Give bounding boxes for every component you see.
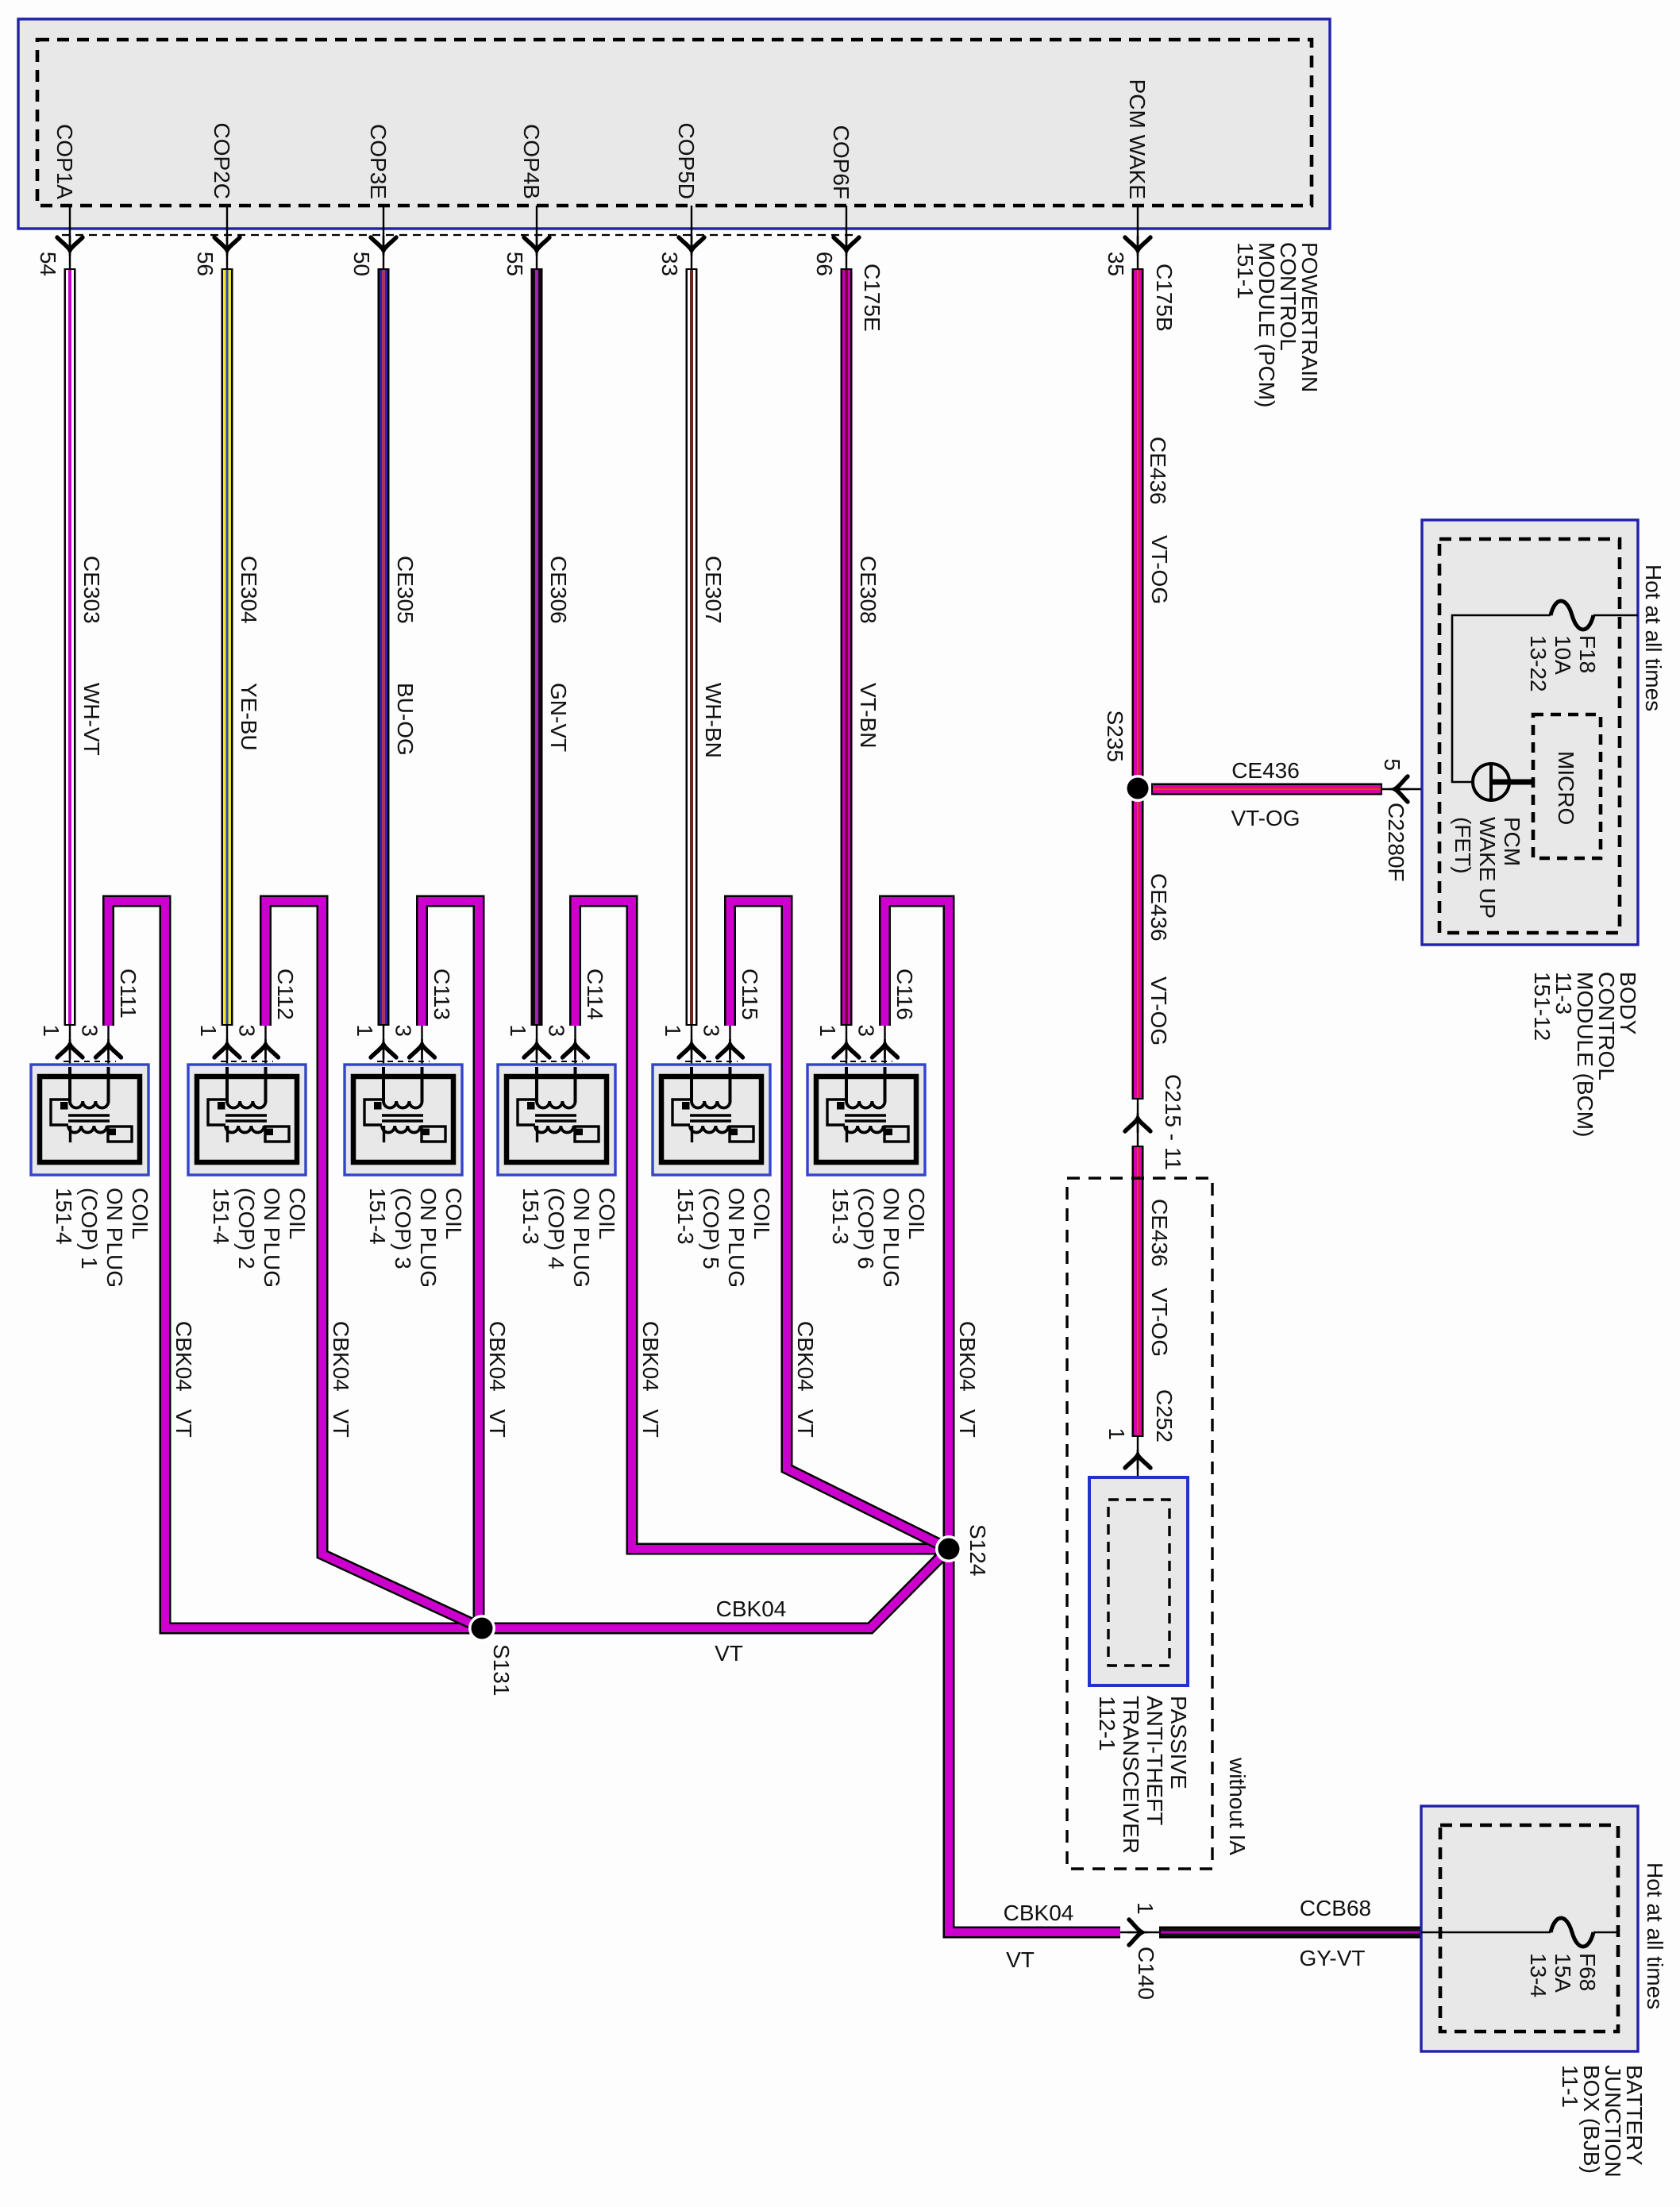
wire F18 to FET [1452,615,1551,782]
svg-text:CBK04: CBK04 [793,1321,818,1392]
transistor PCM WAKE UP (FET) [1473,764,1509,800]
wire CE308 VT-BN (pin 66 to coil 6) [841,268,853,1026]
svg-text:COP4B: COP4B [519,124,544,199]
connector C175E dashed boundary [62,234,856,236]
svg-text:3: 3 [545,1024,569,1037]
pin 56 stub of COP2C [226,206,228,268]
splice S235 [1124,775,1151,802]
svg-text:(COP) 4: (COP) 4 [544,1188,568,1269]
svg-text:1: 1 [353,1024,377,1037]
fuse F68 15A [1551,1918,1593,1947]
svg-text:ON PLUG: ON PLUG [879,1188,904,1288]
connector C252 pin 1 [1137,1437,1139,1500]
svg-text:VT-OG: VT-OG [1147,535,1172,604]
svg-text:1: 1 [1133,1902,1158,1915]
svg-text:VT: VT [793,1409,818,1438]
coil-on-plug 2 box [188,1065,306,1175]
wire CBK04 VT (coil 3 pin 3 hook) [422,901,480,1628]
module BCM box [1422,520,1638,945]
splice S131 [468,1615,495,1642]
svg-text:CBK04: CBK04 [329,1321,353,1392]
svg-text:MICRO: MICRO [1554,751,1578,825]
svg-text:(COP) 6: (COP) 6 [853,1188,878,1269]
svg-text:5: 5 [1380,758,1404,771]
wire CE303 WH-VT (pin 54 to coil 1) [64,268,76,1026]
connector C115 pins 1,3 [691,1026,692,1105]
svg-text:WAKE UP: WAKE UP [1475,817,1500,919]
connector C140 pin 1 [1120,1932,1159,1933]
svg-text:33: 33 [657,252,682,276]
svg-text:1: 1 [196,1024,221,1037]
svg-text:C140: C140 [1134,1947,1158,2000]
svg-text:BU-OG: BU-OG [393,683,418,756]
svg-text:COP1A: COP1A [52,124,77,199]
coil 5 transformer icon [661,1067,761,1162]
svg-text:VT: VT [638,1409,663,1438]
wire CE436 VT-OG (S235 to BCM C2280F) [1151,784,1382,795]
svg-text:C113: C113 [430,969,454,1020]
coil-on-plug 3 box [345,1065,462,1175]
svg-text:3: 3 [391,1024,416,1037]
svg-text:VT: VT [329,1409,353,1438]
svg-text:3: 3 [699,1024,724,1037]
pin 35 stub of PCM WAKE [1137,206,1139,268]
svg-text:CE436: CE436 [1231,758,1300,783]
coil 4 transformer icon [507,1067,607,1162]
coil 6 transformer icon [816,1067,916,1162]
svg-text:F18: F18 [1575,635,1600,673]
svg-text:CBK04: CBK04 [171,1321,196,1392]
svg-text:TRANSCEIVER: TRANSCEIVER [1119,1696,1143,1854]
svg-text:PASSIVE: PASSIVE [1166,1696,1191,1789]
svg-text:WH-VT: WH-VT [79,683,104,756]
svg-text:C116: C116 [892,969,917,1020]
svg-text:F68: F68 [1575,1953,1600,1991]
svg-text:151-3: 151-3 [673,1188,698,1245]
svg-text:10A: 10A [1551,635,1575,675]
wire CBK04 VT (S131 to S124 link) [482,1549,949,1628]
svg-text:151-4: 151-4 [365,1188,390,1245]
coil-on-plug 1 box [31,1065,148,1175]
svg-text:66: 66 [812,252,837,276]
svg-text:VT: VT [715,1641,743,1666]
svg-text:3: 3 [78,1024,102,1037]
svg-text:151-3: 151-3 [518,1188,543,1245]
connector C112 pins 1,3 [226,1026,228,1105]
wire CBK04 VT (coil 2 pin 3 hook) [266,901,483,1628]
svg-text:CE304: CE304 [237,556,261,624]
svg-text:1: 1 [661,1024,685,1037]
coil 3 transformer icon [353,1067,453,1162]
svg-text:C111: C111 [116,969,141,1019]
wire CE436 VT-OG (S235 to C215) [1132,789,1144,1100]
svg-text:CE436: CE436 [1146,437,1170,505]
svg-text:Hot at all times: Hot at all times [1641,564,1666,711]
svg-text:COIL: COIL [285,1188,310,1239]
wire fuse feed (hot at all times) [1593,614,1638,617]
module PATS box [1089,1477,1188,1685]
module PATS inner dashed boundary [1108,1500,1169,1666]
svg-text:ON PLUG: ON PLUG [260,1188,284,1288]
pin 50 stub of COP3E [383,206,384,268]
svg-text:S131: S131 [489,1644,514,1696]
wire CE306 GN-VT (pin 55 to coil 4) [531,268,543,1026]
wire CCB68 GY-VT (C140 to BJB) [1159,1927,1421,1939]
connector C215-11 [1137,1100,1139,1146]
coil-on-plug 4 box [498,1065,615,1175]
svg-text:CBK04: CBK04 [955,1321,980,1392]
svg-text:S124: S124 [965,1524,990,1576]
wire CE305 BU-OG (pin 50 to coil 3) [378,268,390,1026]
svg-text:56: 56 [193,252,218,276]
svg-text:WH-BN: WH-BN [701,683,726,758]
svg-text:COP3E: COP3E [366,124,391,199]
svg-text:without IA: without IA [1225,1757,1250,1855]
wire CE436 VT-OG (PCM pin 35 to S235) [1132,268,1144,788]
coil 1 transformer icon [40,1067,140,1162]
module PCM inner dashed boundary [37,40,1312,206]
svg-text:GN-VT: GN-VT [546,683,571,752]
pin 66 stub of COP6F [846,206,847,268]
svg-text:54: 54 [36,252,60,276]
svg-text:C252: C252 [1152,1389,1177,1442]
wire CBK04 VT (coil 4 pin 3 hook) [576,901,950,1549]
svg-text:(FET): (FET) [1451,817,1475,874]
svg-text:ON PLUG: ON PLUG [569,1188,594,1288]
svg-text:C115: C115 [738,969,762,1020]
wire into fuse F68 [1421,1932,1551,1934]
svg-text:151-1: 151-1 [1233,242,1258,299]
svg-text:(COP) 5: (COP) 5 [699,1188,723,1269]
svg-text:PCM: PCM [1500,817,1524,866]
svg-text:C112: C112 [273,969,298,1020]
svg-text:1: 1 [506,1024,530,1037]
svg-text:151-4: 151-4 [209,1188,233,1245]
svg-text:1: 1 [39,1024,64,1037]
svg-text:CE308: CE308 [856,556,880,624]
module BCM inner dashed boundary [1439,539,1620,933]
svg-text:1: 1 [1104,1427,1129,1440]
svg-text:C215 - 11: C215 - 11 [1161,1074,1185,1170]
svg-text:CBK04: CBK04 [485,1321,510,1392]
svg-text:C2280F: C2280F [1384,803,1408,882]
svg-text:112-1: 112-1 [1095,1696,1119,1751]
svg-text:COIL: COIL [128,1188,152,1239]
svg-text:GY-VT: GY-VT [1300,1946,1366,1970]
wire CBK04 VT (coil 5 pin 3 hook) [730,901,950,1549]
pin 54 stub of COP1A [69,206,71,268]
svg-text:(COP) 3: (COP) 3 [391,1188,415,1269]
svg-text:S235: S235 [1103,711,1127,762]
svg-text:VT: VT [1006,1947,1035,1972]
svg-text:COP6F: COP6F [829,125,853,199]
module BJB inner dashed boundary [1440,1825,1618,2032]
svg-text:151-4: 151-4 [52,1188,76,1245]
connector C111 pins 1,3 [69,1026,71,1105]
coil 2 transformer icon [197,1067,297,1162]
wire CE304 YE-BU (pin 56 to coil 2) [222,268,233,1026]
svg-text:151-3: 151-3 [828,1188,853,1245]
svg-text:C175E: C175E [860,264,884,332]
svg-text:CE306: CE306 [546,556,571,624]
connector C113 pins 1,3 [383,1026,384,1105]
svg-text:11-1: 11-1 [1558,2065,1582,2108]
svg-text:CE305: CE305 [393,556,418,624]
svg-text:ON PLUG: ON PLUG [724,1188,749,1288]
svg-text:VT-OG: VT-OG [1146,976,1171,1046]
pin 33 stub of COP5D [691,206,692,268]
splice S124 [935,1535,962,1562]
svg-text:CE436: CE436 [1147,1199,1172,1267]
svg-text:(COP) 1: (COP) 1 [77,1188,102,1269]
svg-text:CE436: CE436 [1146,873,1171,942]
svg-text:COIL: COIL [904,1188,929,1239]
block MICRO (dashed) [1533,714,1601,858]
svg-text:COP5D: COP5D [674,123,699,199]
svg-text:ON PLUG: ON PLUG [102,1188,127,1288]
svg-text:C114: C114 [583,969,607,1020]
pin 55 stub of COP4B [536,206,538,268]
svg-text:ANTI-THEFT: ANTI-THEFT [1142,1696,1167,1825]
svg-text:13-4: 13-4 [1526,1953,1551,1997]
svg-text:VT: VT [955,1409,980,1438]
svg-text:CBK04: CBK04 [716,1597,787,1621]
svg-text:COIL: COIL [595,1188,619,1239]
svg-text:13-22: 13-22 [1526,635,1551,692]
connector C114 pins 1,3 [536,1026,538,1105]
wire CE307 WH-BN (pin 33 to coil 5) [686,268,698,1026]
svg-text:VT-OG: VT-OG [1147,1288,1172,1357]
svg-text:VT-OG: VT-OG [1231,806,1300,830]
svg-text:CBK04: CBK04 [638,1321,663,1392]
svg-text:C175B: C175B [1152,264,1177,332]
svg-text:VT-BN: VT-BN [856,683,880,748]
coil-on-plug 6 box [807,1065,925,1175]
coil-on-plug 5 box [653,1065,770,1175]
svg-text:CE303: CE303 [79,556,104,624]
svg-text:3: 3 [854,1024,879,1037]
connector C2280F pin 5 [1382,788,1471,790]
svg-text:COIL: COIL [749,1188,774,1239]
svg-text:VT: VT [171,1409,196,1438]
wire CBK04 VT (coil 1 pin 3 hook) [109,901,483,1628]
svg-text:CBK04: CBK04 [1004,1901,1074,1925]
svg-text:15A: 15A [1551,1953,1575,1993]
svg-text:1: 1 [815,1024,840,1037]
svg-text:ON PLUG: ON PLUG [416,1188,441,1288]
svg-text:PCM WAKE: PCM WAKE [1125,79,1150,199]
svg-text:COP2C: COP2C [210,123,234,199]
option box without IA (dashed) [1067,1178,1212,1869]
svg-text:YE-BU: YE-BU [237,683,261,751]
wire CBK04 VT (coil 6 pin 3 hook) [885,901,1121,1932]
module PCM box [18,19,1330,229]
svg-text:151-12: 151-12 [1530,972,1555,1041]
connector C116 pins 1,3 [846,1026,847,1105]
svg-text:Hot at all times: Hot at all times [1643,1862,1667,2009]
fuse F18 10A [1551,601,1593,630]
svg-text:55: 55 [503,252,527,276]
svg-text:VT: VT [485,1409,510,1438]
svg-text:CE307: CE307 [701,556,726,624]
svg-text:CCB68: CCB68 [1300,1896,1371,1920]
svg-text:(COP) 2: (COP) 2 [234,1188,259,1269]
svg-text:COIL: COIL [441,1188,466,1239]
svg-text:35: 35 [1104,252,1128,276]
module BJB box [1421,1806,1638,2051]
svg-text:50: 50 [349,252,374,276]
svg-text:3: 3 [235,1024,260,1037]
wire CE436 VT-OG (C215 to C252) [1132,1146,1144,1437]
